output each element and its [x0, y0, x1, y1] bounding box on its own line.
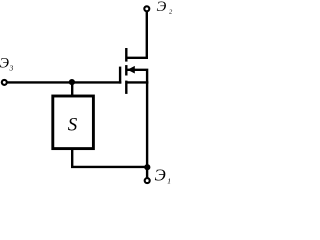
transistor VT substrate channel bar — [125, 65, 127, 75]
transistor VT gate line — [119, 67, 121, 84]
wire gate lead from terminal Э3 to transistor gate — [4, 81, 121, 83]
svg-text:Э: Э — [155, 165, 166, 184]
wire from block S bottom to bottom rail — [71, 148, 73, 167]
wire bottom rail to node B — [71, 166, 147, 168]
svg-text:1: 1 — [167, 177, 171, 186]
wire substrate lead down right side to terminal Э1 — [128, 70, 148, 179]
svg-text:S: S — [68, 115, 78, 136]
svg-text:Э: Э — [0, 55, 10, 71]
transistor VT drain channel bar — [125, 48, 127, 62]
terminal Э3 (left) — [2, 80, 7, 85]
wire drain lead up to terminal Э2 — [126, 12, 147, 58]
wire source lead — [128, 81, 149, 83]
terminal Э1 (bottom) — [145, 178, 150, 183]
transistor VT source channel bar — [125, 81, 127, 94]
junction node A on gate wire — [69, 79, 75, 85]
junction node B on bottom rail — [144, 164, 150, 170]
wire from node A down to block S top — [71, 82, 73, 96]
terminal Э2 (top) — [144, 6, 149, 11]
block S rectangle — [53, 96, 94, 149]
svg-text:Э: Э — [157, 0, 167, 15]
transistor VT substrate arrow — [127, 66, 134, 74]
svg-text:3: 3 — [9, 64, 14, 73]
